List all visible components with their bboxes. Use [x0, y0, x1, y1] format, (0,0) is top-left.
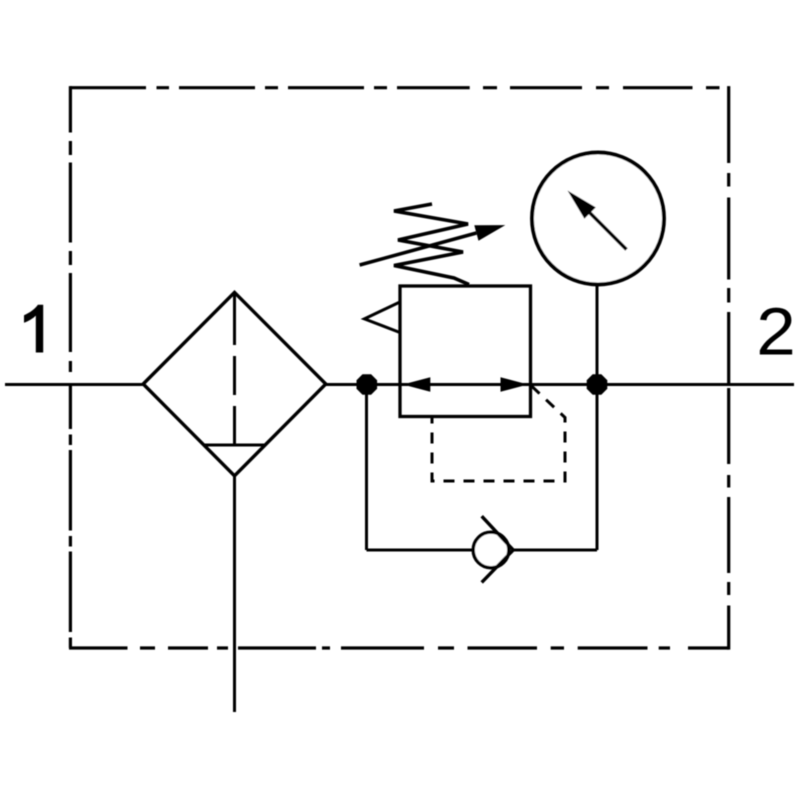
- enclosure dash-dot border bottom: [69, 646, 729, 649]
- node junction dot left: [357, 374, 378, 395]
- pressure gauge G1 needle shaft: [590, 213, 627, 250]
- regulator R1 spring: [394, 204, 469, 285]
- wire gauge stem and bypass right vertical: [596, 285, 599, 551]
- regulator R1 relief vent triangle: [364, 302, 400, 333]
- regulator R1 adjustment arrow shaft: [360, 233, 477, 265]
- check valve V1 ball: [473, 532, 509, 568]
- svg-text:2: 2: [756, 294, 795, 369]
- filter F1 condensate separator line: [203, 444, 266, 447]
- node junction dot right: [587, 374, 608, 395]
- wire bypass horizontal right: [513, 549, 597, 552]
- check valve V1 seat: [482, 516, 514, 582]
- pressure gauge G1 needle head: [568, 191, 596, 219]
- enclosure dash-dot border left: [69, 86, 72, 648]
- pressure gauge G1 dial: [532, 153, 664, 285]
- filter F1 diamond body: [143, 292, 326, 475]
- filter F1 dashed center line: [233, 293, 236, 446]
- regulator R1 flow double arrow right head: [501, 377, 529, 392]
- port label 2: [756, 294, 795, 369]
- wire bypass horizontal left: [367, 549, 474, 552]
- enclosure dash-dot border right: [727, 86, 730, 650]
- wire filter drain line: [233, 476, 236, 712]
- regulator R1 adjustment arrow head: [474, 225, 505, 241]
- enclosure dash-dot border top: [70, 86, 720, 89]
- wire main line left of filter: [5, 383, 143, 386]
- wire bypass left vertical: [365, 385, 368, 551]
- regulator R1 body: [400, 286, 531, 417]
- regulator R1 flow double arrow left head: [403, 377, 431, 392]
- wire main line from filter to port 2: [326, 383, 794, 386]
- regulator R1 pilot dashed line: [432, 386, 565, 481]
- port label 1: [24, 305, 43, 353]
